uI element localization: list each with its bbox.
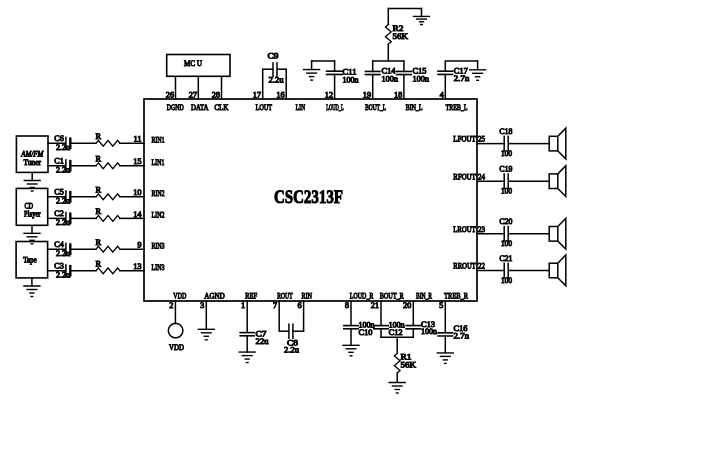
svg-text:9: 9 xyxy=(137,241,141,250)
wire pin2 to VDD xyxy=(174,301,176,323)
wire to R2 xyxy=(387,45,389,62)
svg-text:21: 21 xyxy=(371,301,379,310)
svg-text:ROUT: ROUT xyxy=(277,292,293,301)
svg-text:2.2u: 2.2u xyxy=(56,143,70,152)
resistor R (row C5) xyxy=(96,185,121,199)
wire pin3 to ground xyxy=(205,301,207,329)
AM/FM Tuner box xyxy=(16,136,48,172)
svg-text:100n: 100n xyxy=(421,327,438,336)
pin number 5 xyxy=(439,301,443,310)
pin 18 stub xyxy=(403,74,405,99)
svg-text:R: R xyxy=(96,185,102,194)
pin 19 stub xyxy=(372,74,374,99)
wire joining pins 19,18 xyxy=(373,60,404,62)
svg-text:RIN3: RIN3 xyxy=(152,241,165,250)
wire R1 to ground xyxy=(396,373,398,383)
pin name BIN_R xyxy=(416,292,432,301)
pin number 9 xyxy=(137,241,141,250)
pin number 15 xyxy=(133,157,141,166)
svg-text:22: 22 xyxy=(478,262,485,271)
pin number 28 xyxy=(212,90,220,99)
pin name DGND xyxy=(167,103,184,112)
wire R2 to ground xyxy=(388,9,421,25)
pin number 8 xyxy=(345,301,349,310)
svg-text:2.7n: 2.7n xyxy=(454,332,470,341)
svg-text:BIN_L: BIN_L xyxy=(406,103,423,112)
svg-text:20: 20 xyxy=(403,301,411,310)
svg-text:Tuner: Tuner xyxy=(24,158,42,167)
pin name LIN3 xyxy=(152,263,165,272)
wire C13 down xyxy=(412,329,414,337)
svg-text:2.2u: 2.2u xyxy=(56,165,70,174)
pin name RFOUT xyxy=(453,172,476,181)
pin 27 stub xyxy=(197,76,199,99)
svg-text:C9: C9 xyxy=(268,52,279,61)
wire box to C1 xyxy=(48,165,66,167)
svg-text:C1: C1 xyxy=(54,157,64,166)
svg-text:LOUD_L: LOUD_L xyxy=(326,103,344,112)
wire tuner ground xyxy=(31,172,33,180)
wire pin7 down xyxy=(279,301,288,331)
resistor R (row C3) xyxy=(96,259,121,273)
svg-text:C5: C5 xyxy=(54,188,64,197)
resistor R1 xyxy=(394,353,416,373)
svg-text:18: 18 xyxy=(394,90,402,99)
wire R to pin 11 xyxy=(120,142,144,144)
svg-text:100: 100 xyxy=(501,187,512,196)
wire C7 to ground xyxy=(246,336,248,352)
svg-text:2.2u: 2.2u xyxy=(56,196,70,205)
wire C4 to R xyxy=(72,248,97,250)
resistor R2 xyxy=(385,24,408,44)
capacitor C1 xyxy=(54,157,71,175)
pin name TREB_R xyxy=(444,292,468,301)
ground at tape xyxy=(24,286,40,297)
pin name LIN1 xyxy=(152,158,165,167)
CD Player box xyxy=(16,188,47,225)
wire C18 to speaker xyxy=(509,143,549,145)
pin 17 stub xyxy=(262,69,264,99)
capacitor C3 xyxy=(54,262,71,280)
pin name RIN2 xyxy=(152,189,165,198)
svg-text:REF: REF xyxy=(245,292,257,301)
wire C16 to ground xyxy=(444,336,446,353)
svg-text:15: 15 xyxy=(133,157,141,166)
svg-text:RIN2: RIN2 xyxy=(152,189,165,198)
Tape label xyxy=(23,256,37,265)
ground at C10 xyxy=(343,345,359,356)
MCU label xyxy=(184,59,202,68)
pin name VDD xyxy=(173,292,186,301)
ground at C16 xyxy=(437,353,453,364)
wire tape ground xyxy=(31,278,33,286)
svg-text:C4: C4 xyxy=(54,240,64,249)
wire pin19 top xyxy=(372,61,374,71)
pin number 2 xyxy=(169,301,173,310)
wire pin to C21 xyxy=(477,270,504,272)
speaker LS4 xyxy=(549,255,566,286)
speaker LS2 xyxy=(549,166,566,197)
svg-text:19: 19 xyxy=(363,90,371,99)
wire C21 to speaker xyxy=(509,270,549,272)
resistor R (row C2) xyxy=(96,207,121,221)
pin name BIN_L xyxy=(406,103,423,112)
capacitor C4 xyxy=(54,240,71,258)
svg-text:2.2u: 2.2u xyxy=(284,345,299,354)
ground at R1 xyxy=(389,383,405,394)
svg-text:CSC2313F: CSC2313F xyxy=(274,187,343,208)
svg-text:8: 8 xyxy=(345,301,349,310)
svg-text:7: 7 xyxy=(273,301,277,310)
svg-text:LIN1: LIN1 xyxy=(152,158,165,167)
svg-text:LROUT: LROUT xyxy=(453,225,476,234)
pin name RIN xyxy=(302,292,313,301)
pin number 10 xyxy=(133,188,141,197)
wire cd ground xyxy=(31,225,33,233)
wire to R1 xyxy=(396,337,398,353)
pin name TREB_L xyxy=(446,103,468,112)
ground at cd player xyxy=(24,233,40,244)
svg-text:2.2u: 2.2u xyxy=(56,270,70,279)
svg-text:6: 6 xyxy=(297,301,301,310)
pin name DATA xyxy=(191,103,209,112)
wire C11 to ground xyxy=(312,61,335,71)
IC U1 CSC2313F body xyxy=(144,99,477,301)
Tape box xyxy=(16,242,47,278)
pin name BOUT_R xyxy=(380,292,404,301)
pin number 25 xyxy=(478,135,485,144)
pin name CLK xyxy=(214,103,228,112)
svg-text:12: 12 xyxy=(325,90,333,99)
svg-text:C6: C6 xyxy=(54,134,64,143)
svg-text:56K: 56K xyxy=(393,32,409,41)
svg-text:25: 25 xyxy=(478,135,485,144)
wire R to pin 14 xyxy=(120,217,144,219)
svg-text:MC U: MC U xyxy=(184,59,202,68)
pin number 11 xyxy=(134,135,142,144)
AM/FM Tuner label xyxy=(20,150,44,167)
pin number 19 xyxy=(363,90,371,99)
pin 4 stub xyxy=(444,74,446,99)
pin number 3 xyxy=(200,301,204,310)
wire pin5 to C16 xyxy=(444,301,446,333)
svg-text:C19: C19 xyxy=(499,165,512,174)
wire pin to C20 xyxy=(477,233,504,235)
wire R to pin 9 xyxy=(120,248,144,250)
ground at R2 xyxy=(414,16,430,24)
svg-text:100n: 100n xyxy=(413,75,430,84)
pin name REF xyxy=(245,292,257,301)
capacitor C12 xyxy=(374,321,406,337)
pin number 6 xyxy=(297,301,301,310)
svg-text:RROUT: RROUT xyxy=(453,262,476,271)
svg-text:2.7n: 2.7n xyxy=(454,74,470,83)
IC U1 part name CSC2313F xyxy=(274,187,343,208)
pin 26 stub xyxy=(175,76,177,99)
svg-text:27: 27 xyxy=(189,90,197,99)
VDD supply symbol xyxy=(168,323,184,352)
svg-text:C2: C2 xyxy=(54,209,64,218)
svg-text:14: 14 xyxy=(133,210,142,219)
pin number 23 xyxy=(478,225,485,234)
svg-text:17: 17 xyxy=(253,90,261,99)
svg-text:4: 4 xyxy=(440,90,445,99)
svg-text:C21: C21 xyxy=(499,254,512,263)
capacitor C21 xyxy=(499,254,512,285)
wire box to C4 xyxy=(48,248,66,250)
svg-text:Tape: Tape xyxy=(23,256,37,265)
wire C19 to speaker xyxy=(509,180,549,182)
svg-text:2.2u: 2.2u xyxy=(56,218,70,227)
svg-text:100n: 100n xyxy=(382,75,399,84)
pin number 12 xyxy=(325,90,333,99)
pin name AGND xyxy=(204,292,225,301)
svg-text:DATA: DATA xyxy=(191,103,209,112)
pin number 18 xyxy=(394,90,402,99)
svg-text:100: 100 xyxy=(501,276,512,285)
svg-text:C3: C3 xyxy=(54,262,64,271)
svg-text:C10: C10 xyxy=(359,328,373,337)
wire C9 to pin16 xyxy=(278,68,287,70)
capacitor C5 xyxy=(54,188,71,206)
svg-text:Player: Player xyxy=(24,209,41,218)
pin number 24 xyxy=(478,172,486,181)
capacitor C10 xyxy=(344,321,376,337)
svg-text:2: 2 xyxy=(169,301,173,310)
ground at C11 xyxy=(304,70,320,81)
svg-text:LIN3: LIN3 xyxy=(152,263,165,272)
wire joining pins 21,20 xyxy=(381,336,413,338)
pin number 26 xyxy=(166,90,174,99)
pin name LOUD_L xyxy=(326,103,344,112)
wire R to pin 15 xyxy=(120,165,144,167)
capacitor C16 xyxy=(438,324,470,341)
pin number 7 xyxy=(273,301,277,310)
capacitor C11 xyxy=(327,67,360,84)
pin name LFOUT xyxy=(453,135,476,144)
svg-text:AGND: AGND xyxy=(204,292,225,301)
ground at AGND xyxy=(198,329,214,340)
pin number 21 xyxy=(371,301,379,310)
MCU box xyxy=(167,55,230,77)
resistor R (row C4) xyxy=(96,238,121,252)
resistor R (row C1) xyxy=(96,154,121,168)
svg-text:1: 1 xyxy=(241,301,245,310)
pin name LOUD_R xyxy=(350,292,374,301)
wire pin17 to C9 xyxy=(263,68,273,70)
capacitor C7 xyxy=(240,330,268,347)
pin name RIN3 xyxy=(152,241,165,250)
pin number 20 xyxy=(403,301,411,310)
svg-text:100: 100 xyxy=(501,149,512,158)
wire pin to C19 xyxy=(477,180,504,182)
svg-text:5: 5 xyxy=(439,301,443,310)
pin number 27 xyxy=(189,90,197,99)
svg-text:RFOUT: RFOUT xyxy=(453,172,476,181)
wire R to pin 13 xyxy=(120,270,144,272)
capacitor C19 xyxy=(499,165,512,196)
pin name LOUT xyxy=(256,103,273,112)
wire pin8 to C10 xyxy=(350,301,352,326)
svg-text:TREB_L: TREB_L xyxy=(446,103,468,112)
wire pin18 top xyxy=(403,61,405,71)
pin number 4 xyxy=(440,90,445,99)
svg-text:100: 100 xyxy=(501,239,512,248)
svg-text:VDD: VDD xyxy=(173,292,186,301)
wire C3 to R xyxy=(72,270,97,272)
svg-text:CLK: CLK xyxy=(214,103,228,112)
svg-text:BOUT_L: BOUT_L xyxy=(365,103,386,112)
svg-text:100n: 100n xyxy=(343,75,360,84)
pin name LIN xyxy=(296,103,306,112)
capacitor C8 xyxy=(284,324,299,354)
wire box to C2 xyxy=(48,217,66,219)
wire pin6 down xyxy=(294,301,304,331)
wire pin21 to C12 xyxy=(380,301,382,326)
svg-text:22u: 22u xyxy=(256,337,269,346)
svg-text:24: 24 xyxy=(478,172,486,181)
wire R to pin 10 xyxy=(120,196,144,198)
svg-text:BOUT_R: BOUT_R xyxy=(380,292,404,301)
svg-text:RIN: RIN xyxy=(302,292,313,301)
capacitor C6 xyxy=(54,134,71,152)
svg-text:DGND: DGND xyxy=(167,103,184,112)
svg-text:LIN: LIN xyxy=(296,103,306,112)
capacitor C15 xyxy=(397,67,430,84)
pin name RROUT xyxy=(453,262,476,271)
pin number 1 xyxy=(241,301,245,310)
speaker LS1 xyxy=(549,128,566,159)
pin 28 stub xyxy=(221,76,223,99)
capacitor C17 xyxy=(438,67,470,84)
pin name RIN1 xyxy=(152,136,165,145)
svg-text:26: 26 xyxy=(166,90,174,99)
pin name LIN2 xyxy=(152,211,165,220)
svg-text:TREB_R: TREB_R xyxy=(444,292,468,301)
svg-text:R: R xyxy=(96,259,102,268)
ground at tuner xyxy=(24,181,40,192)
svg-text:VDD: VDD xyxy=(169,343,184,352)
wire pin to C18 xyxy=(477,143,504,145)
svg-text:BIN_R: BIN_R xyxy=(416,292,432,301)
svg-text:LIN2: LIN2 xyxy=(152,211,165,220)
svg-text:LOUT: LOUT xyxy=(256,103,273,112)
capacitor C2 xyxy=(54,209,71,227)
svg-text:R: R xyxy=(96,154,102,163)
wire C17 to ground xyxy=(445,61,477,71)
wire C20 to speaker xyxy=(509,233,549,235)
capacitor C20 xyxy=(499,217,512,248)
pin 12 stub xyxy=(334,74,336,99)
svg-text:LOUD_R: LOUD_R xyxy=(350,292,374,301)
svg-text:RIN1: RIN1 xyxy=(152,136,165,145)
svg-text:16: 16 xyxy=(276,90,284,99)
svg-text:56K: 56K xyxy=(401,360,417,369)
resistor R (row C6) xyxy=(96,132,121,146)
svg-text:R: R xyxy=(96,132,102,141)
speaker LS3 xyxy=(549,218,566,249)
CD Player label xyxy=(24,202,41,219)
pin number 16 xyxy=(276,90,284,99)
svg-text:28: 28 xyxy=(212,90,220,99)
capacitor C9 xyxy=(268,52,284,85)
svg-text:10: 10 xyxy=(133,188,141,197)
wire C12 down xyxy=(380,329,382,337)
pin name LROUT xyxy=(453,225,476,234)
svg-text:13: 13 xyxy=(133,262,141,271)
wire pin1 to C7 xyxy=(246,301,248,333)
capacitor C13 xyxy=(406,320,438,336)
wire box to C5 xyxy=(48,196,66,198)
wire C5 to R xyxy=(72,196,97,198)
wire C2 to R xyxy=(72,217,97,219)
svg-text:23: 23 xyxy=(478,225,485,234)
ground at C17 xyxy=(470,70,486,81)
capacitor C18 xyxy=(499,127,512,158)
svg-text:C18: C18 xyxy=(499,127,512,136)
pin number 14 xyxy=(133,210,142,219)
pin number 13 xyxy=(133,262,141,271)
svg-text:R: R xyxy=(96,238,102,247)
svg-text:R: R xyxy=(96,207,102,216)
wire C1 to R xyxy=(72,165,97,167)
svg-text:C12: C12 xyxy=(389,328,403,337)
capacitor C14 xyxy=(365,67,398,84)
svg-text:11: 11 xyxy=(134,135,142,144)
wire pin20 to C13 xyxy=(412,301,414,326)
svg-text:LFOUT: LFOUT xyxy=(453,135,476,144)
svg-text:3: 3 xyxy=(200,301,204,310)
pin number 17 xyxy=(253,90,261,99)
pin number 22 xyxy=(478,262,485,271)
svg-text:2.2u: 2.2u xyxy=(56,249,70,258)
pin 16 stub xyxy=(285,69,287,99)
pin name ROUT xyxy=(277,292,293,301)
ground at C7 xyxy=(239,352,255,363)
wire box to C3 xyxy=(48,270,66,272)
wire box to C6 xyxy=(48,142,66,144)
pin name BOUT_L xyxy=(365,103,386,112)
wire C6 to R xyxy=(72,142,97,144)
svg-text:2.2u: 2.2u xyxy=(269,76,284,85)
svg-text:C20: C20 xyxy=(499,217,512,226)
wire C10 to ground xyxy=(350,329,352,346)
